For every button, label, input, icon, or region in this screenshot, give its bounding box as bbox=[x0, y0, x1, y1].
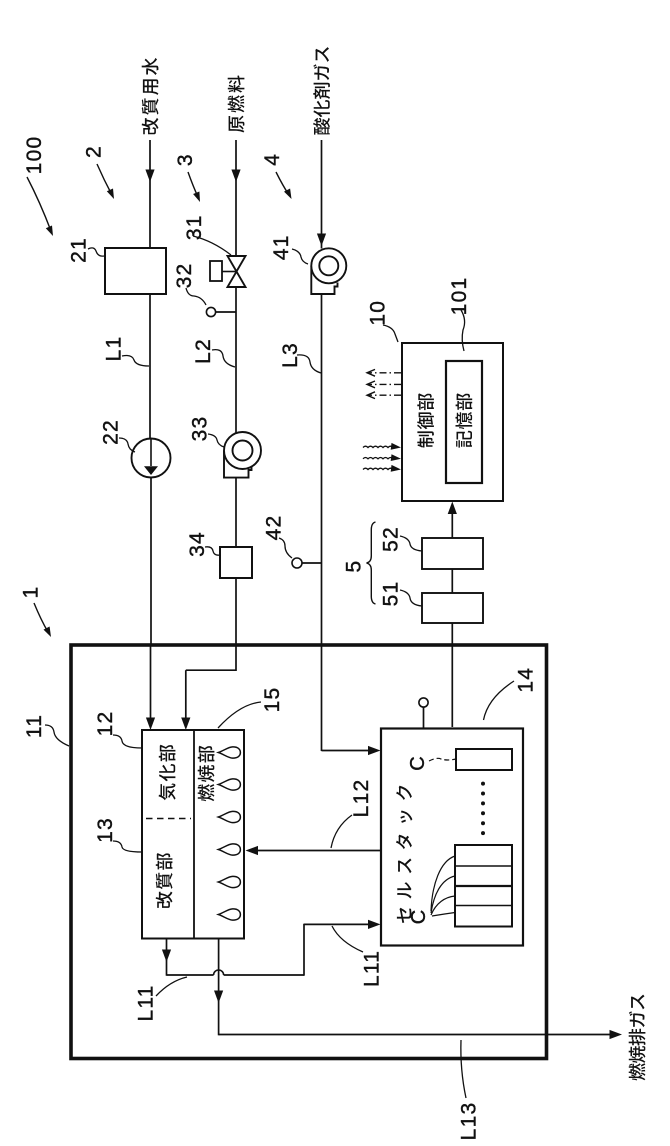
leader 52 bbox=[400, 536, 422, 551]
arrowhead leader 100 bbox=[46, 226, 53, 237]
wire L11 bridge over exhaust bbox=[214, 970, 224, 975]
system boundary box 1 bbox=[71, 645, 547, 1059]
svg-text:11: 11 bbox=[23, 714, 46, 738]
arrowhead L1 into vaporizer bbox=[146, 718, 155, 731]
leader L11 left bbox=[156, 977, 187, 996]
svg-text:4: 4 bbox=[261, 153, 284, 166]
blower 33 body bbox=[224, 432, 261, 469]
arrowhead reformer outlet bbox=[162, 950, 171, 963]
wire exhaust vertical bbox=[218, 939, 220, 1036]
svg-text:5: 5 bbox=[342, 560, 365, 573]
arrowhead input 3 bbox=[391, 465, 401, 472]
wire 52 to box10 bbox=[451, 513, 453, 538]
memory box 101 bbox=[446, 361, 482, 483]
arrowhead exhaust exit bbox=[610, 1030, 623, 1039]
cell stack box 14 bbox=[381, 729, 523, 946]
flame 4 bbox=[218, 844, 240, 855]
cell group box bbox=[455, 845, 512, 927]
leader 15 bbox=[218, 702, 261, 728]
flame 3 bbox=[218, 811, 240, 822]
wire L2 supply segment bbox=[235, 140, 237, 256]
blower 41 impeller bbox=[319, 256, 338, 275]
flame 6 bbox=[218, 909, 240, 920]
leader 22 bbox=[119, 438, 135, 452]
wire L11 header left bbox=[167, 974, 214, 976]
wire 51 to cellstack bbox=[451, 623, 453, 727]
leader 41 bbox=[292, 249, 308, 264]
wire L3 inside box1 bbox=[321, 646, 323, 751]
text cell-stack bbox=[396, 786, 412, 923]
leader 51 bbox=[400, 590, 422, 606]
leader L12 bbox=[331, 815, 352, 848]
wire L11 riser bbox=[303, 924, 305, 976]
svg-text:21: 21 bbox=[67, 237, 90, 263]
wire L3 to cellstack bbox=[322, 750, 370, 752]
arrowhead leader 1 bbox=[44, 627, 52, 638]
svg-text:3: 3 bbox=[174, 153, 197, 166]
wire L2 jog horizontal bbox=[186, 669, 236, 671]
wire L2 blower33 to box34 bbox=[235, 478, 237, 547]
arrowhead exhaust vertical bbox=[214, 991, 223, 1004]
svg-text:101: 101 bbox=[448, 277, 471, 316]
text combustion-exhaust-gas bbox=[629, 995, 646, 1081]
leader 13 bbox=[113, 841, 142, 852]
leader L2 bbox=[212, 350, 235, 367]
svg-text:L11: L11 bbox=[134, 984, 157, 1021]
svg-text:32: 32 bbox=[173, 263, 196, 289]
leader 34 bbox=[205, 547, 220, 555]
arrowhead input 2 bbox=[391, 454, 401, 461]
svg-text:22: 22 bbox=[99, 419, 122, 445]
stack terminal circle bbox=[419, 698, 428, 707]
leader L11 right bbox=[332, 926, 363, 952]
arrowhead into box10 bbox=[448, 502, 457, 515]
wire L2 valve to blower33 bbox=[235, 287, 237, 433]
condenser box 21 bbox=[105, 248, 166, 294]
open arrowhead output 1 bbox=[367, 369, 375, 376]
single cell box bbox=[456, 749, 512, 770]
svg-text:L2: L2 bbox=[192, 338, 215, 364]
leader 101 bbox=[461, 310, 465, 351]
vaporizer/reformer dashed divider bbox=[146, 818, 191, 820]
wire L1 box21 to pump22 bbox=[149, 294, 151, 439]
valve 31 stem bbox=[222, 271, 237, 273]
svg-text:2: 2 bbox=[82, 145, 105, 158]
cell divider 3 bbox=[455, 905, 512, 907]
leader 31 bbox=[193, 236, 231, 255]
arrowhead L3 supply bbox=[317, 234, 326, 247]
text vaporizer-part bbox=[159, 745, 176, 800]
cell divider 2 bbox=[455, 885, 512, 887]
svg-text:C: C bbox=[408, 910, 430, 924]
flame 2 bbox=[218, 779, 240, 790]
leader 4 bbox=[276, 172, 289, 195]
wire inside pump 22 bbox=[150, 439, 152, 467]
svg-text:L13: L13 bbox=[457, 1102, 480, 1141]
leader 11 bbox=[45, 725, 69, 746]
sensor box 51 bbox=[422, 593, 483, 623]
leader 33 bbox=[208, 434, 224, 447]
leader L3 bbox=[297, 355, 321, 373]
wire L11 header right bbox=[224, 974, 304, 976]
blower 33 impeller bbox=[233, 441, 253, 461]
leader 3 bbox=[188, 172, 198, 197]
svg-text:15: 15 bbox=[261, 687, 284, 713]
text raw-fuel bbox=[228, 76, 245, 133]
svg-text:52: 52 bbox=[379, 526, 402, 552]
wire L3 blower41 to box1 bbox=[321, 294, 323, 646]
wire exhaust horizontal L13 bbox=[219, 1034, 610, 1036]
wire L12 bbox=[257, 850, 381, 852]
valve 31 lower triangle bbox=[228, 272, 246, 288]
flame 1 bbox=[218, 747, 240, 758]
arrowhead L11 into cellstack bbox=[368, 920, 381, 929]
leader C upper bbox=[429, 758, 456, 761]
arrowhead L3 into cellstack bbox=[368, 746, 381, 755]
svg-text:100: 100 bbox=[23, 136, 46, 175]
pump 22 rotor triangle bbox=[144, 466, 158, 475]
open arrowhead output 3 bbox=[367, 392, 375, 399]
leader C lower curves bbox=[431, 856, 455, 916]
wire L2 jog down bbox=[185, 670, 187, 719]
svg-text:33: 33 bbox=[188, 416, 211, 442]
svg-text:51: 51 bbox=[379, 581, 402, 607]
arrowhead leader 3 bbox=[193, 192, 200, 203]
blower 33 casing bbox=[224, 451, 252, 478]
ellipsis dots bbox=[481, 782, 485, 786]
sensor box 52 bbox=[422, 538, 483, 569]
arrowhead L12 into combustor bbox=[246, 846, 259, 855]
control output dash-dot 3 bbox=[368, 394, 401, 396]
sensor input wavy 1 bbox=[363, 446, 393, 447]
reformer divider bbox=[193, 730, 195, 939]
cell divider 1 bbox=[455, 865, 512, 867]
text oxidant-gas bbox=[313, 47, 330, 135]
leader 32 bbox=[186, 288, 206, 305]
vaporizer-feed box 34 bbox=[220, 547, 252, 578]
wire L1 supply segment bbox=[149, 140, 151, 248]
wire L3 supply segment bbox=[321, 140, 323, 249]
arrowhead leader 4 bbox=[284, 189, 292, 200]
brace 5 bbox=[367, 522, 376, 604]
arrowhead input 1 bbox=[391, 443, 401, 450]
text combustion-part bbox=[198, 746, 215, 802]
valve 31 upper triangle bbox=[228, 256, 246, 272]
leader L13 bbox=[461, 1040, 466, 1098]
wire sensor42 tap bbox=[302, 562, 322, 564]
arrowhead L2 supply bbox=[231, 170, 240, 183]
wire sensor32 tap bbox=[216, 311, 236, 313]
wire L1 inside box1 bbox=[150, 646, 152, 719]
arrowhead L1 supply bbox=[145, 170, 154, 183]
control unit box 10 bbox=[402, 343, 503, 501]
leader 42 bbox=[279, 538, 292, 558]
wire L11 to cellstack bbox=[304, 923, 370, 925]
svg-text:L1: L1 bbox=[102, 336, 125, 362]
flame 5 bbox=[218, 876, 240, 887]
leader 21 bbox=[88, 248, 104, 256]
arrowhead L2 into vaporizer bbox=[181, 718, 190, 731]
control output dash-dot 2 bbox=[368, 383, 401, 385]
stack terminal stem bbox=[423, 707, 425, 729]
text reforming-water bbox=[142, 58, 159, 134]
blower 41 body bbox=[311, 248, 346, 283]
svg-text:41: 41 bbox=[270, 234, 293, 260]
open arrowhead output 2 bbox=[367, 381, 375, 388]
svg-text:13: 13 bbox=[94, 817, 117, 843]
svg-text:L11: L11 bbox=[360, 950, 383, 987]
text memory-part bbox=[456, 393, 473, 447]
sensor 42 bbox=[292, 558, 302, 568]
arrowhead leader 2 bbox=[107, 189, 114, 200]
pump 22 bbox=[132, 439, 171, 478]
wire L2 box34 into box1 bbox=[235, 578, 237, 671]
leader 1 bbox=[34, 603, 48, 632]
svg-text:14: 14 bbox=[515, 667, 538, 693]
valve 31 actuator bbox=[210, 261, 222, 281]
svg-text:42: 42 bbox=[262, 515, 285, 541]
svg-text:1: 1 bbox=[19, 586, 42, 599]
sensor input wavy 2 bbox=[363, 458, 393, 459]
svg-text:C: C bbox=[407, 756, 429, 770]
svg-text:34: 34 bbox=[186, 531, 209, 557]
leader 2 bbox=[97, 164, 112, 195]
leader 10 bbox=[383, 325, 398, 342]
svg-text:10: 10 bbox=[366, 300, 389, 326]
svg-text:12: 12 bbox=[94, 711, 117, 737]
wire L1 pump to box1 bbox=[150, 478, 152, 647]
reformer unit box bbox=[142, 730, 244, 939]
control output dash-dot 1 bbox=[368, 372, 401, 374]
leader 12 bbox=[113, 735, 142, 748]
text reformer-part bbox=[156, 853, 173, 908]
leader 100 bbox=[27, 177, 51, 231]
sensor 32 bbox=[206, 307, 215, 316]
blower 41 casing bbox=[311, 266, 337, 294]
wire 51-52 bbox=[451, 569, 453, 593]
sensor input wavy 3 bbox=[363, 468, 393, 469]
leader L1 bbox=[122, 356, 149, 367]
wire reformer outlet bbox=[166, 939, 168, 976]
svg-text:L12: L12 bbox=[350, 779, 373, 818]
text control-part bbox=[417, 393, 434, 447]
leader 14 bbox=[484, 681, 515, 720]
